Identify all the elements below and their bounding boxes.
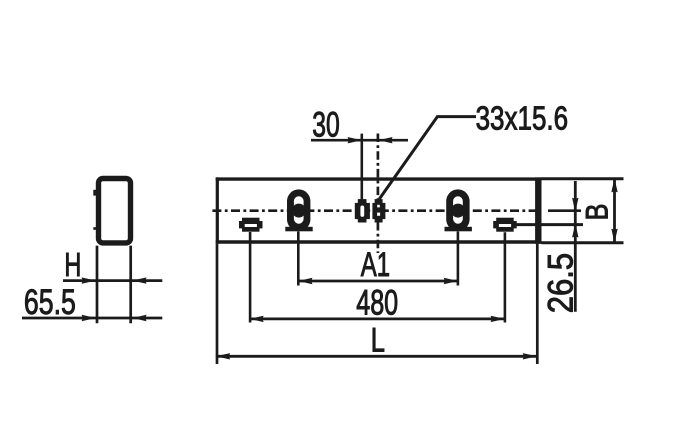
dimension line 26.5 xyxy=(574,181,577,312)
A1 left extension line xyxy=(297,232,300,286)
B top extension line xyxy=(542,177,624,180)
L left extension line xyxy=(216,244,219,364)
dimension line L xyxy=(216,355,537,358)
leader line 33x15.6 xyxy=(379,117,476,199)
svg-text:480: 480 xyxy=(356,284,398,323)
main rectangle left edge xyxy=(216,177,219,243)
side view lip bottom xyxy=(93,227,96,230)
dimension line A1 xyxy=(298,280,458,283)
dimension line 30 xyxy=(311,139,408,142)
dimension line B xyxy=(613,178,616,243)
side view right extension line xyxy=(129,246,132,324)
main rectangle right end plate xyxy=(535,177,541,243)
svg-text:L: L xyxy=(371,322,385,360)
480 left extension line xyxy=(249,232,252,323)
svg-text:33x15.6: 33x15.6 xyxy=(476,100,568,137)
480 right extension line xyxy=(504,232,507,322)
end slot right xyxy=(493,218,517,232)
30 dim extension line xyxy=(360,134,363,200)
end slot left xyxy=(239,218,263,232)
vertical centerline xyxy=(377,134,380,254)
svg-text:A1: A1 xyxy=(361,246,390,284)
side view profile outline xyxy=(99,179,131,243)
center slot left (33x15.6) xyxy=(355,199,370,222)
svg-text:30: 30 xyxy=(312,106,340,145)
dimension line 480 xyxy=(249,317,504,320)
main rectangle top edge xyxy=(216,177,542,180)
keyhole slot right: outer stadium xyxy=(445,189,472,231)
B bottom extension line xyxy=(542,241,624,244)
horizontal centerline xyxy=(212,209,541,212)
main rectangle bottom edge xyxy=(216,240,542,244)
centerline extension right xyxy=(548,209,581,212)
svg-text:B: B xyxy=(579,204,615,221)
svg-text:65.5: 65.5 xyxy=(24,282,76,322)
svg-text:26.5: 26.5 xyxy=(542,253,581,313)
center slot right (33x15.6) xyxy=(372,199,385,222)
dimension line 65.5 xyxy=(22,317,162,320)
keyhole slot left: outer stadium xyxy=(285,189,312,231)
A1 right extension line xyxy=(457,232,460,286)
svg-text:H: H xyxy=(64,246,81,283)
side view lip top xyxy=(93,190,96,196)
dimension line H xyxy=(63,279,162,282)
slot row extension right xyxy=(517,223,584,226)
L right extension line xyxy=(536,244,539,364)
side view left extension line xyxy=(96,246,99,324)
